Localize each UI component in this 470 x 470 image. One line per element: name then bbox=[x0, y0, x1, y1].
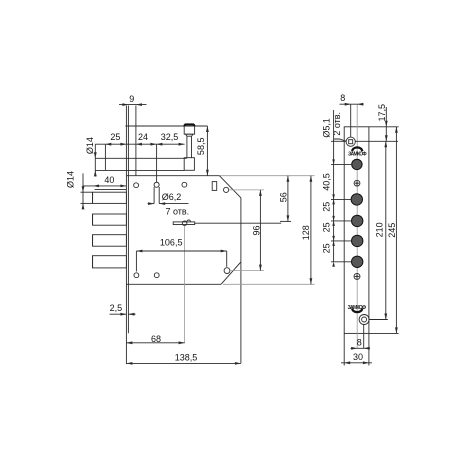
bolt A bbox=[93, 192, 127, 203]
dimension 40 bbox=[83, 175, 126, 187]
faceplate side view front line bbox=[125, 106, 127, 334]
hole row1 right bbox=[182, 182, 187, 187]
svg-text:Ø14: Ø14 bbox=[85, 137, 95, 154]
dimension D14 bolt bbox=[66, 171, 93, 209]
dimension 106,5 bbox=[136, 238, 226, 272]
dimension 8 top bbox=[340, 93, 364, 137]
dimension D6,2 7 holes bbox=[148, 144, 190, 216]
slot near top right bbox=[212, 182, 217, 191]
locking pin foot bbox=[184, 158, 194, 171]
svg-text:8: 8 bbox=[340, 93, 345, 103]
extension plate top to 245 bbox=[369, 126, 399, 128]
cam / keyhole shape bbox=[173, 220, 195, 226]
svg-text:25: 25 bbox=[110, 132, 120, 142]
svg-text:8: 8 bbox=[357, 337, 362, 347]
logo bottom bbox=[348, 305, 367, 312]
svg-text:40: 40 bbox=[104, 175, 114, 185]
svg-text:2,5: 2,5 bbox=[110, 303, 123, 313]
svg-text:210: 210 bbox=[375, 222, 385, 237]
dimension 138,5 bbox=[126, 353, 240, 365]
cam horizontal center line bbox=[195, 222, 282, 224]
body bottom edge bbox=[127, 283, 222, 285]
bolt D bbox=[93, 256, 127, 268]
hole row2 left bbox=[134, 273, 139, 278]
lock body inner vertical line bbox=[135, 106, 137, 176]
extension plate bottom to 245 bbox=[369, 332, 399, 334]
screw small bottom bbox=[354, 273, 360, 279]
top right diagonal bbox=[219, 176, 241, 198]
dimension 9 plate-to-body bbox=[119, 94, 147, 106]
bolt hole 4 bbox=[352, 256, 363, 267]
screw hole top outer bbox=[346, 137, 355, 146]
plate bottom extension line bbox=[125, 334, 127, 365]
svg-text:25: 25 bbox=[322, 243, 332, 253]
hole row2 middle bbox=[154, 273, 159, 278]
faceplate axis center line bbox=[356, 104, 358, 348]
faceplate side view back line bbox=[127, 106, 129, 334]
dimension chain 25 / 24 / 32,5 bbox=[95, 132, 184, 145]
bottom right diagonal bbox=[221, 262, 241, 284]
screw hole top inner square bbox=[349, 140, 353, 144]
hole on top diagonal bbox=[224, 187, 229, 192]
top edge extension to 128/56 dims bbox=[219, 175, 314, 177]
svg-text:25: 25 bbox=[322, 202, 332, 212]
dimension 210 bbox=[375, 141, 388, 319]
svg-text:245: 245 bbox=[387, 223, 397, 238]
svg-text:32,5: 32,5 bbox=[161, 132, 179, 142]
locking pin cap bbox=[184, 124, 194, 136]
logo top bbox=[348, 147, 367, 157]
svg-text:7 отв.: 7 отв. bbox=[165, 207, 189, 217]
dimension 128 bbox=[301, 176, 312, 285]
left dimension column line bbox=[331, 110, 351, 267]
svg-text:ЗАМКОФ: ЗАМКОФ bbox=[348, 152, 367, 158]
dimension 17,5 bbox=[377, 104, 388, 141]
svg-text:56: 56 bbox=[278, 192, 288, 202]
dimension 245 bbox=[387, 127, 398, 334]
dimension 30 bbox=[341, 333, 372, 365]
dimension 2,5 plate thickness bbox=[110, 303, 136, 316]
locking pin stem bbox=[187, 136, 192, 158]
upper compartment top line bbox=[125, 125, 207, 127]
dimension D14 latch bbox=[85, 137, 97, 176]
svg-text:Ø5,1: Ø5,1 bbox=[322, 118, 332, 138]
dimension 8 bottom bbox=[351, 325, 371, 350]
svg-text:58,5: 58,5 bbox=[196, 138, 206, 156]
screw small top bbox=[354, 180, 360, 186]
svg-text:138,5: 138,5 bbox=[175, 353, 198, 363]
svg-text:24: 24 bbox=[138, 132, 148, 142]
labels D5,1 2 holes bbox=[322, 112, 347, 141]
dimension 96 bbox=[229, 190, 264, 271]
svg-text:Ø6,2: Ø6,2 bbox=[162, 192, 182, 202]
bolt C bbox=[93, 235, 127, 247]
svg-text:17,5: 17,5 bbox=[377, 104, 387, 122]
dimension 58,5 bbox=[196, 126, 209, 176]
bolt hole 1 bbox=[351, 194, 362, 205]
dimension 68 bbox=[126, 334, 184, 344]
svg-text:30: 30 bbox=[353, 352, 363, 362]
svg-text:Ø14: Ø14 bbox=[66, 171, 76, 188]
svg-text:ЗАМКОФ: ЗАМКОФ bbox=[348, 305, 367, 311]
hole on bottom diagonal bbox=[224, 268, 230, 274]
svg-text:9: 9 bbox=[129, 94, 134, 104]
hole row1 left bbox=[134, 183, 139, 188]
extension screw2 row bbox=[369, 319, 388, 321]
extension screw1 row bbox=[355, 140, 398, 142]
body top edge bbox=[127, 175, 220, 177]
svg-text:40,5: 40,5 bbox=[322, 173, 332, 191]
latch hole bbox=[352, 159, 362, 169]
screw hole bottom inner bbox=[362, 317, 367, 322]
svg-text:25: 25 bbox=[322, 222, 332, 232]
bolt B bbox=[93, 214, 127, 225]
latch bolt bbox=[95, 144, 187, 170]
svg-text:128: 128 bbox=[301, 225, 311, 240]
dimension 56 bbox=[278, 176, 291, 222]
screw hole bottom outer bbox=[359, 315, 369, 325]
faceplate outline bbox=[344, 127, 369, 334]
svg-text:96: 96 bbox=[251, 225, 261, 235]
svg-text:68: 68 bbox=[151, 334, 161, 344]
bolt hole 3 bbox=[352, 235, 363, 246]
svg-text:106,5: 106,5 bbox=[160, 238, 183, 248]
body right edge and extension down bbox=[240, 198, 242, 364]
cam vertical center line bbox=[184, 226, 186, 344]
bolt hole 2 bbox=[352, 215, 363, 226]
bottom edge extension to 128 dim bbox=[223, 283, 315, 285]
bolt A hole top line bbox=[95, 189, 127, 191]
bolt left ends thick bbox=[92, 192, 94, 268]
hole row1 middle (D6,2 ref) bbox=[154, 182, 159, 187]
